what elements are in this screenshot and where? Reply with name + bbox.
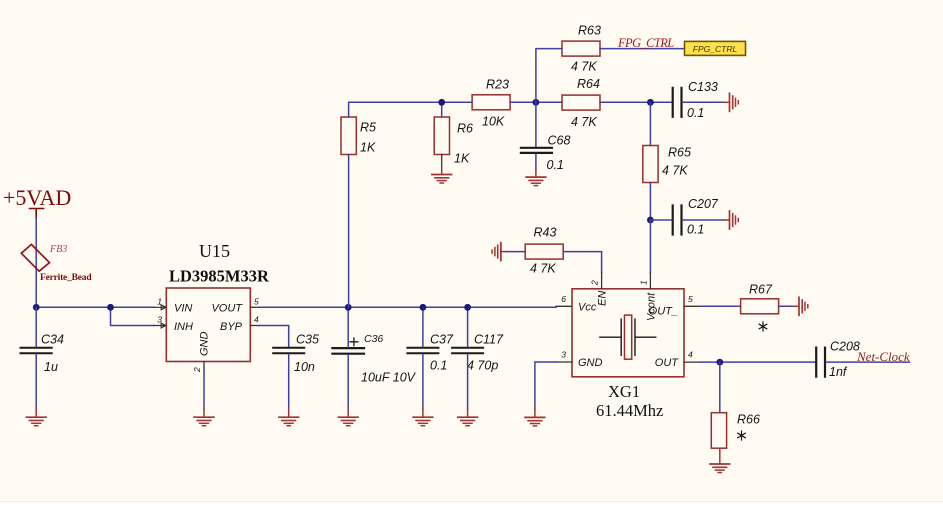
node C37 junction bbox=[420, 304, 427, 311]
svg-text:0.1: 0.1 bbox=[547, 158, 564, 172]
label 1K R6 bbox=[454, 152, 470, 166]
label R23 bbox=[486, 78, 509, 92]
capacitor C207 bbox=[673, 206, 682, 235]
wire C35 to ground bbox=[288, 354, 290, 409]
svg-text:GND: GND bbox=[578, 357, 603, 369]
svg-text:GND: GND bbox=[199, 332, 211, 357]
svg-text:0.1: 0.1 bbox=[430, 359, 447, 373]
pin name OUT bbox=[655, 357, 680, 369]
svg-text:R63: R63 bbox=[578, 24, 601, 38]
pin 2 number rotated bbox=[192, 367, 202, 373]
svg-text:Vcc: Vcc bbox=[578, 302, 597, 314]
svg-text:BYP: BYP bbox=[220, 321, 243, 333]
ground for C117 bbox=[458, 409, 478, 426]
pin 3 stub bbox=[556, 361, 572, 363]
pin name GND rotated bbox=[199, 332, 211, 357]
svg-text:C208: C208 bbox=[830, 340, 860, 354]
wire BYP to C35 bbox=[259, 326, 289, 347]
node center junction bbox=[533, 99, 540, 106]
svg-text:EN: EN bbox=[597, 291, 609, 306]
wire R23 to center node bbox=[510, 101, 562, 103]
pin 5 number bbox=[254, 297, 259, 307]
pin name VIN bbox=[174, 303, 192, 315]
label 47K R43 bbox=[530, 261, 556, 275]
pin name GND XG1 bbox=[578, 357, 603, 369]
pin name BYP bbox=[220, 321, 243, 333]
capacitor C34 bbox=[21, 348, 52, 354]
capacitor C35 bbox=[273, 348, 304, 354]
svg-text:R66: R66 bbox=[737, 413, 760, 427]
pin name Vcont rotated bbox=[646, 292, 658, 321]
svg-text:XG1: XG1 bbox=[608, 382, 640, 401]
svg-text:+5VAD: +5VAD bbox=[3, 185, 71, 210]
label 0.1 C207 bbox=[687, 223, 704, 237]
label C207 bbox=[688, 197, 719, 211]
wire +5VAD to node A bbox=[35, 218, 37, 304]
svg-text:10K: 10K bbox=[482, 115, 505, 129]
pin 5 stub bbox=[684, 305, 700, 307]
crystal symbol inside XG1 bbox=[600, 319, 656, 355]
label R63 bbox=[578, 24, 601, 38]
pin 2 number rotated bbox=[590, 280, 600, 286]
pin 5 number bbox=[688, 294, 693, 304]
side ground for R67 bbox=[794, 297, 808, 315]
label 47K R63 bbox=[571, 60, 597, 74]
node OUT junction bbox=[716, 359, 723, 366]
pin 5 VOUT stub bbox=[250, 306, 259, 308]
label C208 bbox=[830, 340, 860, 354]
resistor R5 bbox=[341, 117, 356, 155]
wire INH drop bbox=[111, 307, 155, 325]
pin 1 stub bbox=[649, 273, 651, 289]
svg-text:4 7K: 4 7K bbox=[571, 60, 597, 74]
pin 2 stub bbox=[203, 362, 205, 369]
resistor R63 bbox=[562, 41, 600, 56]
svg-text:4: 4 bbox=[688, 350, 693, 360]
label 470p bbox=[467, 359, 498, 373]
svg-text:FPG_CTRL: FPG_CTRL bbox=[693, 44, 738, 54]
label C37 bbox=[430, 333, 454, 347]
label 0.1 C133 bbox=[687, 106, 704, 120]
svg-text:3: 3 bbox=[157, 315, 162, 325]
wire pin4 to C208 bbox=[700, 361, 815, 363]
label 61.44Mhz bbox=[596, 401, 663, 420]
stub R6 to ground bbox=[441, 155, 443, 167]
wire center node up to R63 bbox=[536, 49, 562, 103]
resistor R6 bbox=[434, 117, 449, 155]
crystal rect bbox=[625, 315, 632, 359]
svg-text:4 70p: 4 70p bbox=[467, 359, 498, 373]
svg-text:6: 6 bbox=[561, 294, 566, 304]
wire R6 drop bbox=[441, 102, 443, 117]
wire C37 to ground bbox=[422, 354, 424, 409]
wire C207 to side ground bbox=[683, 219, 725, 221]
side ground for R43 bbox=[492, 243, 506, 261]
label R66 bbox=[737, 413, 760, 427]
ground for XG1 pin3 bbox=[525, 409, 545, 426]
pin 3 number bbox=[561, 350, 566, 360]
svg-text:Ferrite_Bead: Ferrite_Bead bbox=[40, 273, 92, 283]
svg-text:10uF 10V: 10uF 10V bbox=[361, 371, 417, 385]
svg-text:1K: 1K bbox=[360, 141, 376, 155]
wire U15 pin2 to ground bbox=[203, 368, 205, 409]
svg-text:OUT: OUT bbox=[655, 357, 680, 369]
svg-text:C35: C35 bbox=[296, 333, 319, 347]
pin name Vcc bbox=[578, 302, 597, 314]
pin name INH bbox=[174, 321, 193, 333]
wire pin5 to R67 bbox=[700, 305, 741, 307]
label C133 bbox=[688, 80, 718, 94]
pin name VOUT bbox=[211, 303, 243, 315]
svg-text:R6: R6 bbox=[457, 122, 473, 136]
pin 1 number bbox=[157, 297, 162, 307]
wire R65 to C207 node bbox=[649, 183, 651, 221]
node B junction bbox=[107, 304, 114, 311]
label star R66 bbox=[738, 431, 746, 440]
side ground for C207 bbox=[724, 211, 738, 229]
pin 6 number bbox=[561, 294, 566, 304]
wire main input rail bbox=[36, 306, 154, 308]
power +5VAD label bbox=[3, 185, 71, 210]
pin 2 stub bbox=[601, 273, 603, 289]
svg-text:INH: INH bbox=[174, 321, 193, 333]
label 10n bbox=[294, 360, 315, 374]
svg-text:5: 5 bbox=[688, 294, 693, 304]
net label FPG_CTRL bbox=[617, 36, 674, 50]
capacitor C36 polarized bbox=[332, 348, 364, 354]
svg-text:C133: C133 bbox=[688, 80, 718, 94]
label C117 bbox=[474, 333, 504, 347]
node C117 junction bbox=[464, 304, 471, 311]
label 0.1 C37 bbox=[430, 359, 447, 373]
wire C207 left bbox=[650, 219, 671, 221]
svg-text:4: 4 bbox=[254, 315, 259, 325]
svg-text:C37: C37 bbox=[430, 333, 454, 347]
svg-text:1u: 1u bbox=[44, 360, 58, 374]
svg-text:C34: C34 bbox=[41, 333, 64, 347]
pin 4 number bbox=[254, 315, 259, 325]
svg-text:OUT_: OUT_ bbox=[649, 305, 678, 317]
pin 4 BYP stub bbox=[250, 325, 259, 327]
label FB3 bbox=[49, 244, 67, 255]
pin 4 stub bbox=[684, 361, 700, 363]
svg-text:5: 5 bbox=[254, 297, 259, 307]
label 1K R5 bbox=[360, 141, 376, 155]
wire C36 to ground bbox=[347, 355, 349, 409]
capacitor C133 bbox=[673, 88, 682, 117]
label C34 bbox=[41, 333, 64, 347]
label R67 bbox=[749, 283, 773, 297]
pin 3 INH stub and arrow bbox=[154, 323, 166, 328]
resistor R23 bbox=[472, 95, 510, 110]
wire rail to C37 bbox=[422, 307, 424, 346]
label XG1 bbox=[608, 382, 640, 401]
ground for C68 bbox=[526, 169, 546, 186]
svg-text:4 7K: 4 7K bbox=[571, 115, 597, 129]
wire rail to C117 bbox=[467, 307, 469, 346]
label C36 bbox=[364, 333, 383, 345]
svg-text:R65: R65 bbox=[668, 146, 691, 160]
svg-text:1nf: 1nf bbox=[829, 365, 848, 379]
label 1u bbox=[44, 360, 58, 374]
label 10K bbox=[482, 115, 505, 129]
pin 1 VIN stub and arrow bbox=[154, 305, 166, 310]
wire R63 to FPG_CTRL port bbox=[600, 48, 685, 50]
label 47K R64 bbox=[571, 115, 597, 129]
resistor R66 bbox=[711, 413, 726, 449]
ground for U15 pin2 bbox=[194, 409, 214, 426]
node C207 junction bbox=[647, 217, 654, 224]
label R64 bbox=[577, 77, 600, 91]
wire ground to R43 bbox=[506, 251, 525, 253]
pin 4 number bbox=[688, 350, 693, 360]
pin 6 stub XG1 bbox=[556, 305, 572, 307]
capacitor C117 bbox=[452, 348, 483, 354]
wire C34 to ground bbox=[35, 354, 37, 409]
wire C208 to Net-Clock bbox=[826, 361, 910, 363]
svg-text:2: 2 bbox=[590, 280, 600, 286]
pin name EN rotated bbox=[597, 291, 609, 306]
label 0.1 C68 bbox=[547, 158, 564, 172]
op-amp U15 body bbox=[166, 288, 250, 362]
resistor R65 bbox=[643, 146, 658, 183]
svg-text:FB3: FB3 bbox=[49, 244, 67, 255]
svg-text:FPG_CTRL: FPG_CTRL bbox=[617, 36, 674, 50]
svg-text:10n: 10n bbox=[294, 360, 315, 374]
wire R64 to C133 node bbox=[600, 101, 672, 103]
wire C68 to ground bbox=[535, 154, 537, 169]
svg-text:R67: R67 bbox=[749, 283, 773, 297]
pin name OUT_ bbox=[649, 305, 678, 317]
svg-text:4 7K: 4 7K bbox=[662, 164, 688, 178]
pin 1 number rotated bbox=[639, 280, 649, 285]
wire rail to C36 bbox=[347, 307, 349, 347]
svg-text:R64: R64 bbox=[577, 77, 600, 91]
wire R5 top rail bbox=[349, 102, 472, 117]
wire OUT node down to R66 bbox=[719, 362, 721, 413]
wire R5 bottom to rail bbox=[348, 155, 350, 308]
svg-text:0.1: 0.1 bbox=[687, 106, 704, 120]
port box FPG_CTRL bbox=[685, 41, 746, 55]
svg-text:VOUT: VOUT bbox=[211, 303, 243, 315]
svg-text:LD3985M33R: LD3985M33R bbox=[169, 267, 270, 286]
label LD3985M33R bbox=[169, 267, 270, 286]
label 47K R65 bbox=[662, 164, 688, 178]
resistor R67 bbox=[741, 299, 779, 314]
wire C133 to side ground bbox=[683, 101, 725, 103]
label C68 bbox=[548, 134, 571, 148]
wire XG1 gnd pin3 bbox=[535, 362, 556, 409]
transistor XG1 body bbox=[572, 289, 684, 377]
label 10uF 10V bbox=[361, 371, 417, 385]
node C133 junction bbox=[647, 99, 654, 106]
svg-text:C68: C68 bbox=[548, 134, 571, 148]
label U15 bbox=[199, 241, 230, 261]
svg-text:C117: C117 bbox=[474, 333, 504, 347]
capacitor C37 bbox=[407, 348, 438, 354]
net label Net-Clock bbox=[856, 349, 910, 364]
svg-text:C207: C207 bbox=[688, 197, 719, 211]
ferrite bead FB3 bbox=[21, 244, 49, 271]
wire C133 node down to R65 bbox=[649, 102, 651, 145]
capacitor C208 bbox=[816, 348, 825, 377]
wire C117 to ground bbox=[467, 354, 469, 409]
node C36 junction bbox=[345, 304, 352, 311]
svg-text:R5: R5 bbox=[360, 121, 376, 135]
wire node A to C34 bbox=[35, 307, 37, 346]
svg-text:R43: R43 bbox=[534, 226, 557, 240]
label R6 bbox=[457, 122, 473, 136]
node A junction bbox=[33, 304, 40, 311]
svg-text:VIN: VIN bbox=[174, 303, 192, 315]
ground for C34 bbox=[26, 409, 46, 426]
svg-text:3: 3 bbox=[561, 350, 566, 360]
svg-text:C36: C36 bbox=[364, 333, 383, 345]
wire center node down to C68 bbox=[535, 102, 537, 147]
ground for C35 bbox=[279, 409, 299, 426]
wire R67 to side ground bbox=[779, 305, 794, 307]
svg-text:1: 1 bbox=[639, 280, 649, 285]
ground for C36 bbox=[338, 409, 358, 426]
svg-text:0.1: 0.1 bbox=[687, 223, 704, 237]
resistor R43 bbox=[525, 244, 563, 259]
label R43 bbox=[534, 226, 557, 240]
power +5VAD bar symbol bbox=[30, 209, 44, 219]
ground for R66 bbox=[710, 448, 730, 472]
wire C207 node down to pin1 bbox=[649, 220, 651, 273]
node R6 junction bbox=[438, 99, 445, 106]
wire R43 to pin2 bbox=[563, 252, 601, 273]
side ground for C133 bbox=[724, 93, 738, 111]
svg-text:61.44Mhz: 61.44Mhz bbox=[596, 401, 663, 420]
svg-text:U15: U15 bbox=[199, 241, 230, 261]
resistor R64 bbox=[562, 95, 600, 110]
plus sign C36 bbox=[350, 338, 358, 346]
capacitor C68 bbox=[521, 148, 552, 153]
label 1nf bbox=[829, 365, 848, 379]
ground for C37 bbox=[413, 409, 433, 426]
wire VOUT rail bbox=[259, 306, 556, 308]
label C35 bbox=[296, 333, 319, 347]
svg-text:1: 1 bbox=[157, 297, 162, 307]
ground for R6 bbox=[432, 166, 452, 183]
svg-text:R23: R23 bbox=[486, 78, 509, 92]
pin 3 number bbox=[157, 315, 162, 325]
svg-text:Net-Clock: Net-Clock bbox=[856, 349, 910, 364]
svg-text:4 7K: 4 7K bbox=[530, 261, 556, 275]
label R5 bbox=[360, 121, 376, 135]
label R65 bbox=[668, 146, 691, 160]
label star R67 bbox=[759, 322, 767, 331]
svg-text:2: 2 bbox=[192, 367, 202, 373]
label Ferrite_Bead bbox=[40, 273, 92, 283]
svg-text:1K: 1K bbox=[454, 152, 470, 166]
